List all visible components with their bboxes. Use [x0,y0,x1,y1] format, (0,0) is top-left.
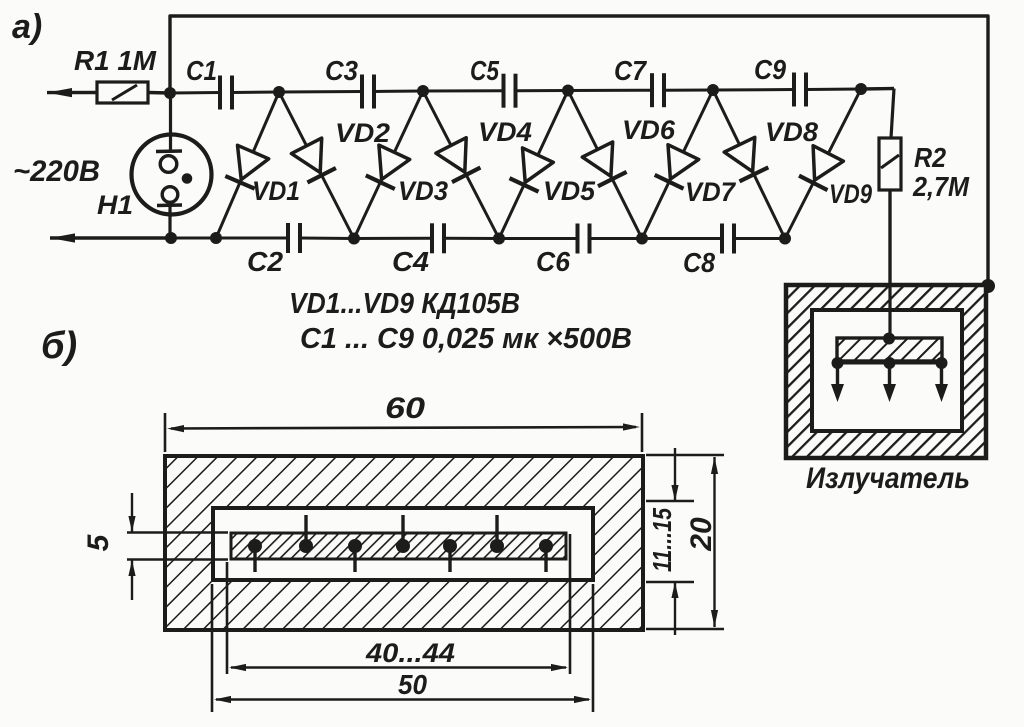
svg-text:5: 5 [82,533,115,551]
svg-text:40...44: 40...44 [365,638,455,668]
svg-text:С1: С1 [186,55,217,86]
svg-text:VD2: VD2 [335,118,390,148]
svg-text:VD7: VD7 [685,177,737,207]
svg-text:VD4: VD4 [478,117,532,147]
svg-text:С8: С8 [683,247,715,278]
svg-text:~220В: ~220В [13,155,100,188]
svg-text:Излучатель: Излучатель [806,462,970,495]
svg-text:а): а) [12,8,42,46]
svg-text:R2: R2 [914,142,946,173]
svg-text:VD1: VD1 [252,176,300,206]
svg-text:С6: С6 [536,246,570,277]
svg-text:VD8: VD8 [765,117,818,147]
svg-text:С3: С3 [325,55,358,86]
svg-text:20: 20 [685,517,718,552]
svg-text:R1 1M: R1 1M [74,45,157,76]
svg-text:С9: С9 [754,54,786,85]
svg-text:VD5: VD5 [543,176,596,206]
svg-text:11...15: 11...15 [647,508,677,572]
svg-text:VD1...VD9 КД105В: VD1...VD9 КД105В [289,288,520,320]
svg-text:С4: С4 [392,246,429,277]
svg-text:С7: С7 [614,55,647,86]
svg-text:С5: С5 [470,55,499,86]
svg-text:50: 50 [398,669,427,700]
svg-text:С1 ... С9 0,025 мк ×500В: С1 ... С9 0,025 мк ×500В [300,323,632,355]
svg-text:б): б) [41,325,77,367]
svg-text:60: 60 [385,392,425,425]
svg-text:VD3: VD3 [398,176,448,206]
svg-text:Н1: Н1 [97,190,133,220]
svg-text:С2: С2 [247,246,283,277]
svg-text:VD6: VD6 [622,115,676,145]
svg-text:VD9: VD9 [829,179,872,209]
svg-text:2,7М: 2,7М [912,171,970,202]
